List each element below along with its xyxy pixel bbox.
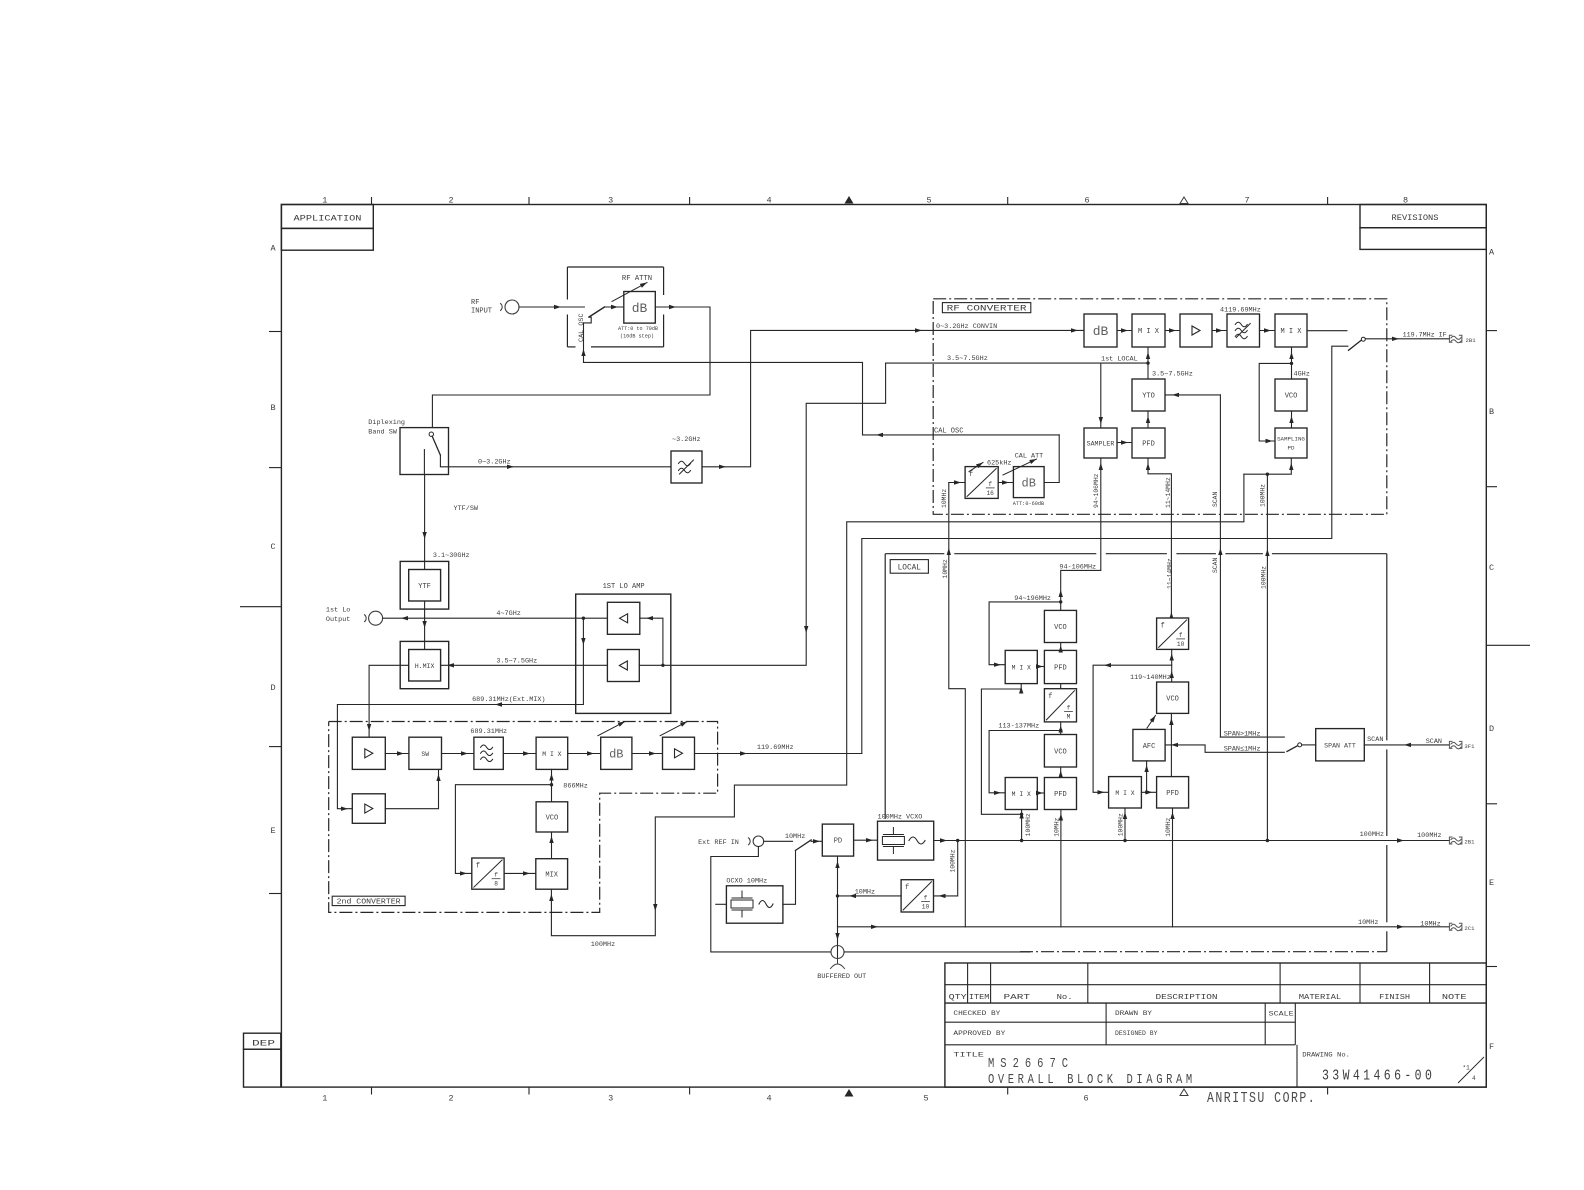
bottom ruler center mark triangle bbox=[845, 1089, 854, 1097]
wire AMP3 119.69MHz output bbox=[695, 753, 862, 755]
amplifier lower in 1ST LO AMP bbox=[607, 650, 639, 682]
svg-text:Output: Output bbox=[326, 616, 350, 624]
BUFFERED OUT pronge symbol bbox=[831, 959, 845, 969]
wire OCXO stub left bbox=[716, 903, 727, 905]
svg-text:16: 16 bbox=[986, 490, 994, 497]
node VCO1 output tap bbox=[1059, 600, 1062, 603]
title block column dividers bbox=[967, 963, 969, 1003]
svg-text:100MHz: 100MHz bbox=[1260, 484, 1267, 507]
svg-text:~3.2GHz: ~3.2GHz bbox=[672, 436, 701, 444]
svg-text:6: 6 bbox=[1083, 1094, 1088, 1104]
svg-text:PFD: PFD bbox=[1166, 790, 1179, 798]
title text MS2667C bbox=[988, 1056, 1074, 1072]
1ST LO AMP enclosure bbox=[576, 594, 671, 713]
ref switch lever bbox=[796, 840, 812, 851]
svg-text:119~140MHz: 119~140MHz bbox=[1130, 674, 1171, 682]
wire CAL OSC feed to switch bbox=[584, 323, 1060, 435]
connector 2B1 100MHz out bbox=[1449, 837, 1462, 845]
svg-text:F: F bbox=[1489, 1042, 1494, 1052]
IF switch lever bbox=[1349, 340, 1362, 350]
SPAN ATT block bbox=[1316, 729, 1365, 761]
svg-text:D: D bbox=[270, 683, 275, 693]
node first local to YTO bbox=[1146, 361, 1149, 364]
wire MIX1 to PFD1 bbox=[1037, 666, 1044, 668]
svg-text:94~106MHz: 94~106MHz bbox=[1093, 473, 1100, 508]
wire MIX5 to VCO4 bbox=[551, 832, 553, 859]
wire 3.5~7.5GHz first local line bbox=[886, 362, 1148, 364]
svg-text:3.5~7.5GHz: 3.5~7.5GHz bbox=[1152, 370, 1193, 378]
svg-text:E: E bbox=[1489, 878, 1494, 888]
converter block MIX first bbox=[1132, 314, 1165, 347]
LOCAL enclosure left border bbox=[884, 554, 886, 819]
wire PFD to YTO bbox=[1147, 411, 1149, 428]
wire divider f8 to MIX5 bbox=[504, 872, 536, 874]
svg-text:f: f bbox=[988, 481, 992, 488]
svg-text:YTF/SW: YTF/SW bbox=[454, 505, 479, 513]
wire PFD3 to VCO3 bbox=[1170, 713, 1172, 776]
amplifier AMP3 block bbox=[663, 737, 695, 769]
VCO3 block bbox=[1157, 682, 1189, 713]
label 625kHz with arrow bbox=[969, 463, 983, 472]
YTO block bbox=[1132, 379, 1165, 411]
svg-text:M I X: M I X bbox=[1012, 665, 1031, 672]
connector 3F1 SCAN in bbox=[1449, 741, 1462, 749]
wire 10MHz to PFD2 bbox=[1060, 810, 1062, 927]
wire dB to AMP3 bbox=[632, 753, 663, 755]
svg-text:MS2667C: MS2667C bbox=[988, 1056, 1074, 1072]
svg-text:dB: dB bbox=[632, 301, 648, 316]
amplifier AMP1 block bbox=[352, 737, 385, 769]
svg-text:11~14MHz: 11~14MHz bbox=[1165, 477, 1172, 508]
wire MIX3 to PFD3 with AFC tap bbox=[1141, 791, 1156, 793]
wire ref switch to PD bbox=[811, 840, 822, 842]
svg-text:10MHz: 10MHz bbox=[1358, 919, 1378, 927]
Band SW lever bbox=[432, 436, 440, 455]
svg-text:2: 2 bbox=[448, 196, 453, 206]
wire SW to BPF689 bbox=[442, 753, 474, 755]
svg-text:1ST LO AMP: 1ST LO AMP bbox=[603, 583, 645, 591]
phase detector PD block bbox=[822, 824, 853, 856]
span switch lever bbox=[1287, 746, 1298, 752]
wire SAMPLER to PFD bbox=[1117, 442, 1132, 444]
harmonic mixer H.MIX block bbox=[400, 641, 449, 688]
svg-text:SPAN ATT: SPAN ATT bbox=[1324, 742, 1356, 749]
svg-text:11~14MHz: 11~14MHz bbox=[1167, 558, 1174, 589]
wire 10MHz bus to connector bbox=[838, 926, 1450, 928]
svg-text:10MHz: 10MHz bbox=[785, 833, 805, 841]
band pass filter 689.31MHz block bbox=[474, 737, 503, 769]
wire OCXO to ref switch contact bbox=[783, 850, 796, 904]
svg-text:Diplexing: Diplexing bbox=[368, 419, 405, 427]
wire PFD1 to VCO1 bbox=[1060, 643, 1062, 651]
wire VCO to second MIX bbox=[1291, 347, 1293, 379]
wire CAL switch to RF ATTN dB bbox=[605, 306, 624, 308]
wire VCXO output to f10b divider bbox=[934, 841, 958, 896]
svg-text:2B1: 2B1 bbox=[1464, 839, 1475, 846]
VCO2 block bbox=[1044, 735, 1076, 768]
svg-text:M: M bbox=[1067, 713, 1071, 720]
svg-text:DESCRIPTION: DESCRIPTION bbox=[1156, 994, 1218, 1002]
svg-text:94~196MHz: 94~196MHz bbox=[1014, 595, 1051, 603]
svg-text:A: A bbox=[1489, 248, 1495, 258]
wire lower amp input bbox=[639, 664, 663, 666]
node VCXO output junction bbox=[956, 839, 959, 842]
svg-text:B: B bbox=[270, 403, 275, 413]
svg-text:VCO: VCO bbox=[1285, 393, 1298, 401]
svg-text:PFD: PFD bbox=[1054, 791, 1067, 799]
svg-text:DESIGNED BY: DESIGNED BY bbox=[1115, 1030, 1158, 1037]
svg-text:PFD: PFD bbox=[1142, 441, 1155, 449]
BUFFERED OUT circle bbox=[831, 946, 844, 959]
band pass filter 4119.69MHz bbox=[1227, 314, 1260, 347]
wire AMP2 to SW second input bbox=[385, 769, 438, 808]
SAMPLING PD block bbox=[1275, 428, 1307, 458]
wire 119.69MHz bus B riser to IF switch bbox=[862, 346, 1348, 753]
node VCO output tap bbox=[1290, 362, 1293, 365]
svg-text:SCALE: SCALE bbox=[1269, 1011, 1294, 1018]
svg-text:Ext REF IN: Ext REF IN bbox=[698, 839, 739, 847]
title block parts header row lines bbox=[945, 984, 1486, 986]
VCO1 94-196MHz block bbox=[1044, 610, 1076, 642]
svg-text:OVERALL BLOCK DIAGRAM: OVERALL BLOCK DIAGRAM bbox=[988, 1072, 1196, 1088]
AMP3 variable arrow bbox=[660, 722, 687, 736]
svg-text:0~3.2GHz: 0~3.2GHz bbox=[478, 459, 511, 467]
MIX1 block bbox=[1005, 650, 1037, 683]
wire second MIX output to IF switch bbox=[1307, 330, 1347, 332]
wire 100MHz VCXO bus to connector bbox=[934, 840, 1450, 842]
wire dB output to diplexer bbox=[432, 307, 710, 432]
svg-text:5: 5 bbox=[926, 196, 931, 206]
wire VCO2 feedback to MIX2 bbox=[989, 731, 1061, 793]
svg-text:LOCAL: LOCAL bbox=[898, 565, 922, 573]
svg-text:RF CONVERTER: RF CONVERTER bbox=[947, 306, 1027, 314]
node VCO2 output tap bbox=[1059, 729, 1062, 732]
wire span switch to SPAN ATT bbox=[1302, 744, 1316, 746]
node 866MHz tap bbox=[550, 783, 553, 786]
wire BPF689 to MIX4 bbox=[503, 753, 536, 755]
svg-text:10: 10 bbox=[1177, 641, 1185, 648]
node 10MHz junction bbox=[836, 894, 839, 897]
svg-text:FINISH: FINISH bbox=[1379, 994, 1410, 1002]
svg-text:PD: PD bbox=[834, 838, 842, 846]
svg-text:VCO: VCO bbox=[1166, 695, 1179, 703]
Band SW YTF contact stub bbox=[423, 450, 425, 475]
svg-text:4: 4 bbox=[766, 1094, 771, 1104]
wire amp to BPF bbox=[1212, 330, 1227, 332]
svg-text:f: f bbox=[1048, 693, 1052, 701]
wire divider fM to PFD1 bbox=[1060, 684, 1062, 689]
Diplexing Band SW box bbox=[400, 428, 449, 475]
wire IF output to connector bbox=[1365, 338, 1449, 340]
wire VCO2 to divider fM bbox=[1060, 722, 1062, 735]
wire H.MIX LO input from 1st LO AMP bbox=[441, 664, 608, 666]
CAL switch lever bbox=[589, 307, 605, 317]
Band SW output stub bbox=[440, 455, 448, 467]
mixer MIX5 block bbox=[536, 859, 568, 890]
AFC block bbox=[1133, 729, 1165, 761]
svg-text:10MHz: 10MHz bbox=[1165, 817, 1172, 836]
CAL switch fixed contact stub bbox=[584, 317, 592, 323]
svg-text:625kHz: 625kHz bbox=[987, 459, 1011, 467]
svg-text:7: 7 bbox=[1244, 196, 1249, 206]
svg-text:MIX: MIX bbox=[545, 872, 558, 880]
svg-text:ANRITSU CORP.: ANRITSU CORP. bbox=[1207, 1091, 1316, 1108]
wire ext ref to buffered out loop bbox=[711, 847, 831, 952]
wire 689.31MHz Ext MIX feed bbox=[337, 618, 583, 809]
wire SCAN line to YTO bbox=[1219, 395, 1221, 737]
svg-text:1st Lo: 1st Lo bbox=[326, 607, 350, 615]
svg-text:3.5~7.5GHz: 3.5~7.5GHz bbox=[947, 355, 988, 363]
VCO 4GHz block bbox=[1275, 379, 1307, 411]
LOCAL label box bbox=[890, 560, 928, 574]
MIX3 block bbox=[1109, 777, 1142, 808]
svg-text:DRAWN BY: DRAWN BY bbox=[1115, 1010, 1152, 1017]
RF CONVERTER label box bbox=[942, 303, 1030, 313]
svg-text:TITLE: TITLE bbox=[953, 1052, 984, 1059]
svg-text:dB: dB bbox=[1022, 476, 1036, 490]
wire 10MHz branch to output bus bbox=[837, 926, 839, 928]
divider f/M block bbox=[1044, 689, 1076, 722]
converter block MIX second bbox=[1275, 314, 1307, 347]
svg-text:RF ATTN: RF ATTN bbox=[622, 275, 652, 283]
wire PD to VCXO bbox=[854, 839, 878, 841]
connector 2C1 10MHz out bbox=[1449, 923, 1462, 931]
svg-text:4119.69MHz: 4119.69MHz bbox=[1220, 306, 1261, 314]
svg-text:f: f bbox=[1160, 623, 1164, 631]
wire local into first MIX bbox=[1147, 347, 1149, 363]
right edge row boundary ticks bbox=[1486, 330, 1497, 332]
CAL ATT variable arrow bbox=[1003, 459, 1037, 475]
svg-text:CAL OSC: CAL OSC bbox=[934, 427, 963, 435]
PFD3 block bbox=[1157, 777, 1189, 808]
svg-text:1st LOCAL: 1st LOCAL bbox=[1101, 356, 1138, 364]
2nd CONVERTER label box bbox=[332, 896, 405, 905]
APPLICATION box bbox=[281, 205, 373, 229]
RF CONVERTER dash-dot enclosure bbox=[933, 299, 1387, 515]
svg-text:PART: PART bbox=[1004, 994, 1031, 1002]
attenuator CAL ATT dB block bbox=[1013, 467, 1044, 498]
wire SPAN greater 1MHz contact bbox=[1220, 736, 1284, 738]
svg-text:VCO: VCO bbox=[1054, 748, 1067, 756]
svg-text:f: f bbox=[1067, 704, 1071, 711]
svg-text:100MHz VCXO: 100MHz VCXO bbox=[878, 814, 923, 822]
svg-text:SCAN: SCAN bbox=[1426, 738, 1442, 746]
svg-text:100MHz: 100MHz bbox=[1360, 831, 1384, 839]
svg-text:689.31MHz(Ext.MIX): 689.31MHz(Ext.MIX) bbox=[472, 696, 545, 704]
svg-text:8: 8 bbox=[494, 881, 498, 888]
wire 10MHz riser to cal generator bbox=[949, 483, 966, 927]
svg-text:E: E bbox=[270, 826, 275, 836]
node VCO3 output junction bbox=[1093, 665, 1172, 792]
svg-text:SW: SW bbox=[421, 751, 429, 758]
top ruler column ticks bbox=[371, 197, 373, 205]
wire MIX4 LO from VCO4 bbox=[551, 769, 553, 801]
svg-text:2: 2 bbox=[448, 1094, 453, 1104]
svg-text:4: 4 bbox=[1472, 1075, 1476, 1082]
PFD1 block bbox=[1044, 650, 1076, 683]
divider f/8 block bbox=[472, 858, 504, 889]
wire SPAN less 1MHz to AFC bbox=[1165, 745, 1284, 752]
wire band SW to LPF 3.2GHz bbox=[449, 466, 672, 468]
wire VCO3 to divider f10 and MIX3 bbox=[1171, 649, 1173, 682]
svg-text:(10dB step): (10dB step) bbox=[620, 332, 654, 339]
amplifier upper in 1ST LO AMP bbox=[607, 602, 639, 634]
svg-text:100MHz: 100MHz bbox=[591, 941, 615, 949]
wire 10MHz to buffered out bbox=[837, 896, 839, 959]
2nd CONVERTER dash-dot enclosure bbox=[329, 722, 718, 913]
wire buffered circle to local border bbox=[844, 951, 1030, 953]
svg-text:D: D bbox=[1489, 724, 1494, 734]
svg-text:SPAN≤1MHz: SPAN≤1MHz bbox=[1224, 746, 1261, 754]
REVISIONS box bbox=[1360, 205, 1486, 228]
svg-text:NOTE: NOTE bbox=[1442, 994, 1467, 1002]
wire SAMPLING PD to VCO bbox=[1291, 411, 1293, 428]
mixer MIX4 block bbox=[536, 737, 568, 769]
divider f/10 reference block bbox=[901, 880, 933, 912]
wire YTO output down to LO AMP bbox=[663, 363, 886, 665]
RF ATTN dashed enclosure bbox=[567, 266, 663, 268]
svg-text:866MHz: 866MHz bbox=[563, 783, 587, 791]
wire CAL ATT output up to CAL OSC line bbox=[1044, 435, 1059, 483]
svg-text:3: 3 bbox=[608, 196, 613, 206]
svg-text:2nd CONVERTER: 2nd CONVERTER bbox=[337, 898, 402, 906]
attenuator block dB RF ATTN bbox=[624, 292, 656, 324]
svg-text:119.69MHz: 119.69MHz bbox=[757, 744, 794, 752]
RF ATTN variable arrow bbox=[612, 283, 647, 302]
svg-text:f: f bbox=[1179, 632, 1183, 639]
node 100MHz junction at sampling feed bbox=[1266, 473, 1269, 476]
svg-text:4GHz: 4GHz bbox=[1294, 370, 1310, 378]
svg-text:10MHz: 10MHz bbox=[941, 489, 948, 508]
wire f16 to CAL ATT bbox=[998, 482, 1013, 484]
wire H.MIX IF output down to 2nd converter bbox=[369, 665, 409, 737]
wire 866MHz to divider f8 bbox=[455, 785, 551, 874]
svg-text:689.31MHz: 689.31MHz bbox=[470, 728, 507, 736]
wire VCO tap to SAMPLING PD input bbox=[1259, 363, 1291, 441]
PFD block in RF converter bbox=[1132, 428, 1165, 458]
svg-text:SAMPLER: SAMPLER bbox=[1087, 441, 1115, 448]
svg-text:119.7MHz IF: 119.7MHz IF bbox=[1403, 332, 1447, 340]
left edge row boundary ticks bbox=[269, 331, 281, 333]
svg-text:100MHz: 100MHz bbox=[1025, 813, 1032, 836]
wire 100MHz into SAMPLING PD bottom bbox=[1244, 458, 1291, 474]
svg-text:ATT:0-60dB: ATT:0-60dB bbox=[1013, 500, 1045, 507]
svg-text:OCXO 10MHz: OCXO 10MHz bbox=[726, 878, 767, 886]
svg-text:1: 1 bbox=[322, 1094, 327, 1104]
svg-text:3.1~30GHz: 3.1~30GHz bbox=[433, 552, 470, 560]
svg-text:10MHz: 10MHz bbox=[855, 889, 875, 897]
top ruler center mark filled triangle bbox=[845, 196, 854, 204]
svg-text:QTY: QTY bbox=[949, 994, 968, 1002]
svg-text:CAL OSC: CAL OSC bbox=[578, 313, 586, 342]
wire SCAN input from connector bbox=[1364, 744, 1449, 746]
svg-text:C: C bbox=[270, 542, 275, 552]
svg-text:100MHz: 100MHz bbox=[1118, 813, 1125, 836]
svg-text:f: f bbox=[905, 884, 909, 892]
svg-text:CAL ATT: CAL ATT bbox=[1015, 453, 1044, 461]
svg-text:f: f bbox=[476, 863, 480, 871]
span switch circle bbox=[1298, 743, 1302, 747]
svg-text:113-137MHz: 113-137MHz bbox=[998, 723, 1039, 731]
wire MIX2 to PFD2 bbox=[1037, 792, 1044, 794]
svg-text:APPROVED BY: APPROVED BY bbox=[953, 1030, 1005, 1037]
wire 100MHz to MIX3 bbox=[1124, 808, 1126, 841]
RF INPUT connector bbox=[501, 304, 503, 311]
wire LPF to RF converter input bbox=[702, 330, 1084, 466]
wire local branch to SAMPLER bbox=[1100, 363, 1102, 428]
svg-text:4: 4 bbox=[766, 196, 771, 206]
svg-text:B: B bbox=[1489, 407, 1494, 417]
switch SW block bbox=[409, 737, 442, 769]
svg-text:APPLICATION: APPLICATION bbox=[294, 214, 362, 224]
1st Lo Output connector bbox=[365, 615, 367, 622]
drawing number 33W41466-00 bbox=[1322, 1068, 1435, 1085]
svg-text:ITEM: ITEM bbox=[969, 994, 990, 1002]
svg-text:94-106MHz: 94-106MHz bbox=[1059, 563, 1096, 571]
svg-text:f: f bbox=[924, 895, 928, 902]
svg-text:YTO: YTO bbox=[1142, 393, 1155, 401]
wire 100MHz bus A to 2nd converter bbox=[551, 474, 1244, 936]
svg-text:VCO: VCO bbox=[546, 815, 559, 823]
wire RF input to CAL switch bbox=[519, 306, 584, 308]
svg-text:YTF: YTF bbox=[418, 583, 431, 591]
svg-text:3F1: 3F1 bbox=[1464, 743, 1475, 750]
wire PFD2 to VCO2 bbox=[1060, 767, 1062, 778]
Band SW contact circle bbox=[429, 432, 433, 436]
LOCAL enclosure right border bbox=[1386, 554, 1388, 741]
node LO AMP input junction bbox=[661, 664, 664, 667]
svg-text:AFC: AFC bbox=[1143, 743, 1156, 751]
wire VCO1 feedback to MIX1 bbox=[989, 602, 1061, 665]
wire dB to MIX bbox=[1117, 330, 1132, 332]
wire AMP1 to SW bbox=[385, 753, 409, 755]
wire MIX4 to dB bbox=[568, 753, 601, 755]
bottom ruler open triangle marker bbox=[1180, 1089, 1188, 1096]
VCXO 100MHz block bbox=[878, 821, 934, 860]
svg-text:No.: No. bbox=[1057, 994, 1073, 1002]
svg-text:10: 10 bbox=[922, 904, 930, 911]
dB variable arrow bbox=[598, 722, 625, 736]
wire scan into YTO bbox=[1165, 394, 1220, 396]
svg-text:CHECKED BY: CHECKED BY bbox=[953, 1010, 1000, 1017]
svg-text:H.MIX: H.MIX bbox=[415, 663, 435, 670]
svg-text:3.5~7.5GHz: 3.5~7.5GHz bbox=[496, 657, 537, 665]
svg-text:3: 3 bbox=[608, 1094, 613, 1104]
divider f/10 block bbox=[1157, 618, 1189, 649]
svg-text:PD: PD bbox=[1288, 445, 1295, 452]
wire 10MHz to PFD3 bbox=[1172, 808, 1174, 927]
svg-text:0~3.2GHz CONVIN: 0~3.2GHz CONVIN bbox=[936, 323, 997, 331]
svg-text:Band SW: Band SW bbox=[368, 429, 397, 437]
svg-text:10MHz: 10MHz bbox=[942, 559, 949, 578]
IF switch contact circle bbox=[1361, 337, 1365, 341]
svg-text:M I X: M I X bbox=[1012, 791, 1031, 798]
svg-text:DEP: DEP bbox=[252, 1038, 275, 1048]
SAMPLER block bbox=[1084, 428, 1117, 458]
LOCAL enclosure bottom border bbox=[1020, 951, 1387, 953]
MIX2 block bbox=[1005, 778, 1037, 810]
wire upper amp input bbox=[640, 618, 663, 665]
svg-text:*1: *1 bbox=[1463, 1065, 1471, 1072]
AFC to VCO3 diagonal arrow bbox=[1147, 716, 1156, 729]
svg-text:5: 5 bbox=[923, 1094, 928, 1104]
svg-text:C: C bbox=[1489, 563, 1494, 573]
wire PFD 11-14MHz to divider bbox=[1148, 458, 1171, 618]
svg-text:MATERIAL: MATERIAL bbox=[1299, 994, 1342, 1002]
DEP box bbox=[244, 1033, 281, 1049]
VCO4 866MHz block bbox=[536, 802, 568, 832]
svg-text:dB: dB bbox=[609, 748, 623, 762]
